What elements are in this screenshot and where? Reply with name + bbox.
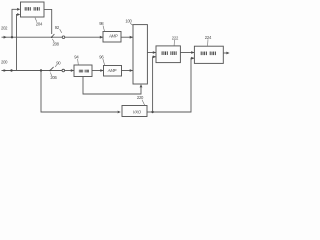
oscillator box VXO 220 — [122, 106, 147, 117]
arrowhead input 202 — [4, 36, 7, 39]
wire AMP2 to combiner 100 — [122, 70, 133, 72]
tick for label 224 — [207, 39, 209, 46]
arrowhead into VXO — [118, 111, 121, 114]
svg-text:222: 222 — [172, 35, 179, 40]
arrowhead input 200 — [4, 69, 7, 72]
amplifier box 98 (AMP1) — [103, 32, 121, 43]
svg-text:202: 202 — [1, 26, 8, 31]
text inside box 222 — [162, 51, 177, 55]
wire combiner 100 to converter 222 — [147, 52, 155, 54]
arrowhead output — [226, 52, 229, 55]
tick for label 208 — [52, 39, 54, 42]
wire filter 204 output to switch1 — [44, 9, 52, 34]
tick for label 94 — [77, 59, 80, 65]
tick for label 96 — [103, 59, 105, 65]
node row2 VXO tap — [40, 69, 42, 71]
wire row2 tap down to VXO input — [41, 71, 117, 113]
arrowhead into combiner row1 — [130, 36, 133, 39]
wire multiplier to AMP2 — [92, 70, 103, 72]
wire row2 to filter input2 — [16, 15, 19, 71]
wire multiplier bottom to combiner bottom — [83, 77, 141, 95]
arrowhead into multiplier 94 — [71, 69, 74, 72]
node on row2 left — [10, 69, 12, 71]
arrowhead into AMP1 — [100, 36, 103, 39]
converter box 222 — [156, 46, 180, 63]
svg-text:204: 204 — [36, 21, 43, 26]
node VXO output junction — [151, 111, 153, 113]
arrowhead into 222 lower — [153, 55, 156, 58]
tick for label 204 — [35, 18, 37, 22]
combiner box 100 — [133, 25, 147, 84]
arrowhead into 224 lower — [191, 57, 194, 60]
tick for label 206 — [50, 73, 51, 77]
svg-text:AMP: AMP — [108, 34, 118, 39]
svg-text:220: 220 — [137, 95, 144, 100]
wire row1 to filter input1 — [12, 9, 17, 37]
arrowhead into 224 upper — [191, 51, 194, 54]
svg-text:VXO: VXO — [133, 109, 142, 114]
tick for label 92 — [60, 29, 62, 33]
converter box 224 — [194, 46, 223, 63]
arrowhead filter input1 — [17, 8, 20, 11]
wire VXO output — [147, 111, 153, 113]
wire switch2 to multiplier 94 — [65, 70, 74, 72]
tick for label 222 — [173, 40, 175, 46]
arrowhead filter input2 — [17, 13, 20, 16]
wire AMP1 to combiner 100 — [121, 36, 133, 38]
switch SW1 pole circle — [62, 36, 65, 39]
arrowhead into AMP2 — [100, 69, 103, 72]
tick for label 98 — [103, 26, 104, 31]
text inside box 204 — [25, 7, 40, 11]
svg-text:200: 200 — [1, 59, 8, 64]
amplifier box 96 (AMP2) — [104, 66, 122, 77]
arrowhead into combiner row2 — [130, 69, 133, 72]
svg-text:100: 100 — [125, 19, 132, 24]
tick for label 220 — [142, 100, 145, 106]
node on row1 — [11, 36, 13, 38]
switch SW1 lever — [52, 34, 55, 37]
svg-text:AMP: AMP — [107, 68, 117, 73]
multiplier box 94 — [74, 65, 92, 77]
text inside box 94 — [79, 70, 89, 73]
wire 222 to 224 — [180, 52, 194, 54]
filter box 204 — [21, 2, 45, 17]
wire VXO to 224 lower input — [153, 58, 195, 112]
wire input 202 — [2, 36, 63, 38]
text inside box 224 — [201, 52, 216, 56]
tick for label 100 — [130, 23, 133, 25]
switch SW2 pole circle — [62, 69, 65, 72]
arrowhead up into combiner bottom — [140, 84, 143, 87]
svg-text:208: 208 — [53, 41, 60, 46]
wire switch1 to AMP1 — [65, 36, 103, 38]
wire input 200 — [2, 70, 63, 72]
wire VXO to 222 lower input — [153, 57, 156, 112]
wire output from 224 — [223, 52, 227, 54]
arrowhead into 222 upper — [153, 51, 156, 54]
svg-text:224: 224 — [205, 35, 212, 40]
switch SW2 lever — [50, 67, 54, 71]
tick for label 90 — [55, 65, 56, 67]
